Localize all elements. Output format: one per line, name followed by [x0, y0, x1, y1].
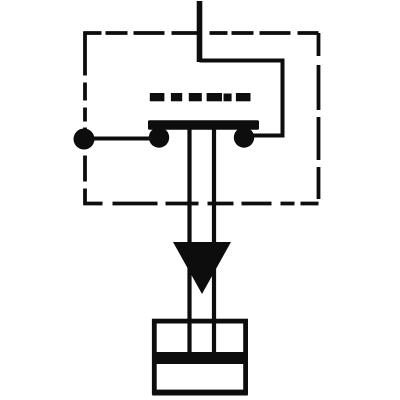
wiper contact bar — [148, 120, 259, 129]
resistor track segment 5 — [224, 94, 232, 102]
dashed enclosure left edge — [83, 32, 87, 206]
dashed enclosure right edge — [317, 33, 321, 205]
resistor track segment 1 — [150, 93, 165, 101]
wire from case node to left contact — [84, 137, 160, 141]
actuation direction arrow — [173, 242, 231, 294]
actuator rod left line — [187, 128, 191, 353]
pressure element box bottom edge (thicker) — [152, 390, 248, 395]
terminal pin (top supply lead) — [197, 1, 203, 62]
dashed enclosure bottom edge — [84, 202, 319, 206]
case ground node on enclosure wall — [74, 129, 95, 150]
pressure element box — [154, 321, 245, 392]
resistor track segment 6 — [236, 93, 251, 101]
right contact node on wiper — [234, 127, 254, 147]
actuator rod right line — [212, 128, 216, 353]
resistor track segment 4 — [207, 93, 222, 101]
piston / diaphragm band — [152, 352, 248, 364]
resistor track segment 2 — [171, 93, 182, 101]
left contact node on wiper — [149, 127, 169, 147]
resistor track segment 3 — [189, 93, 202, 101]
wire from terminal to right contact — [200, 61, 283, 136]
dashed enclosure (sensor housing) top edge — [84, 31, 319, 35]
